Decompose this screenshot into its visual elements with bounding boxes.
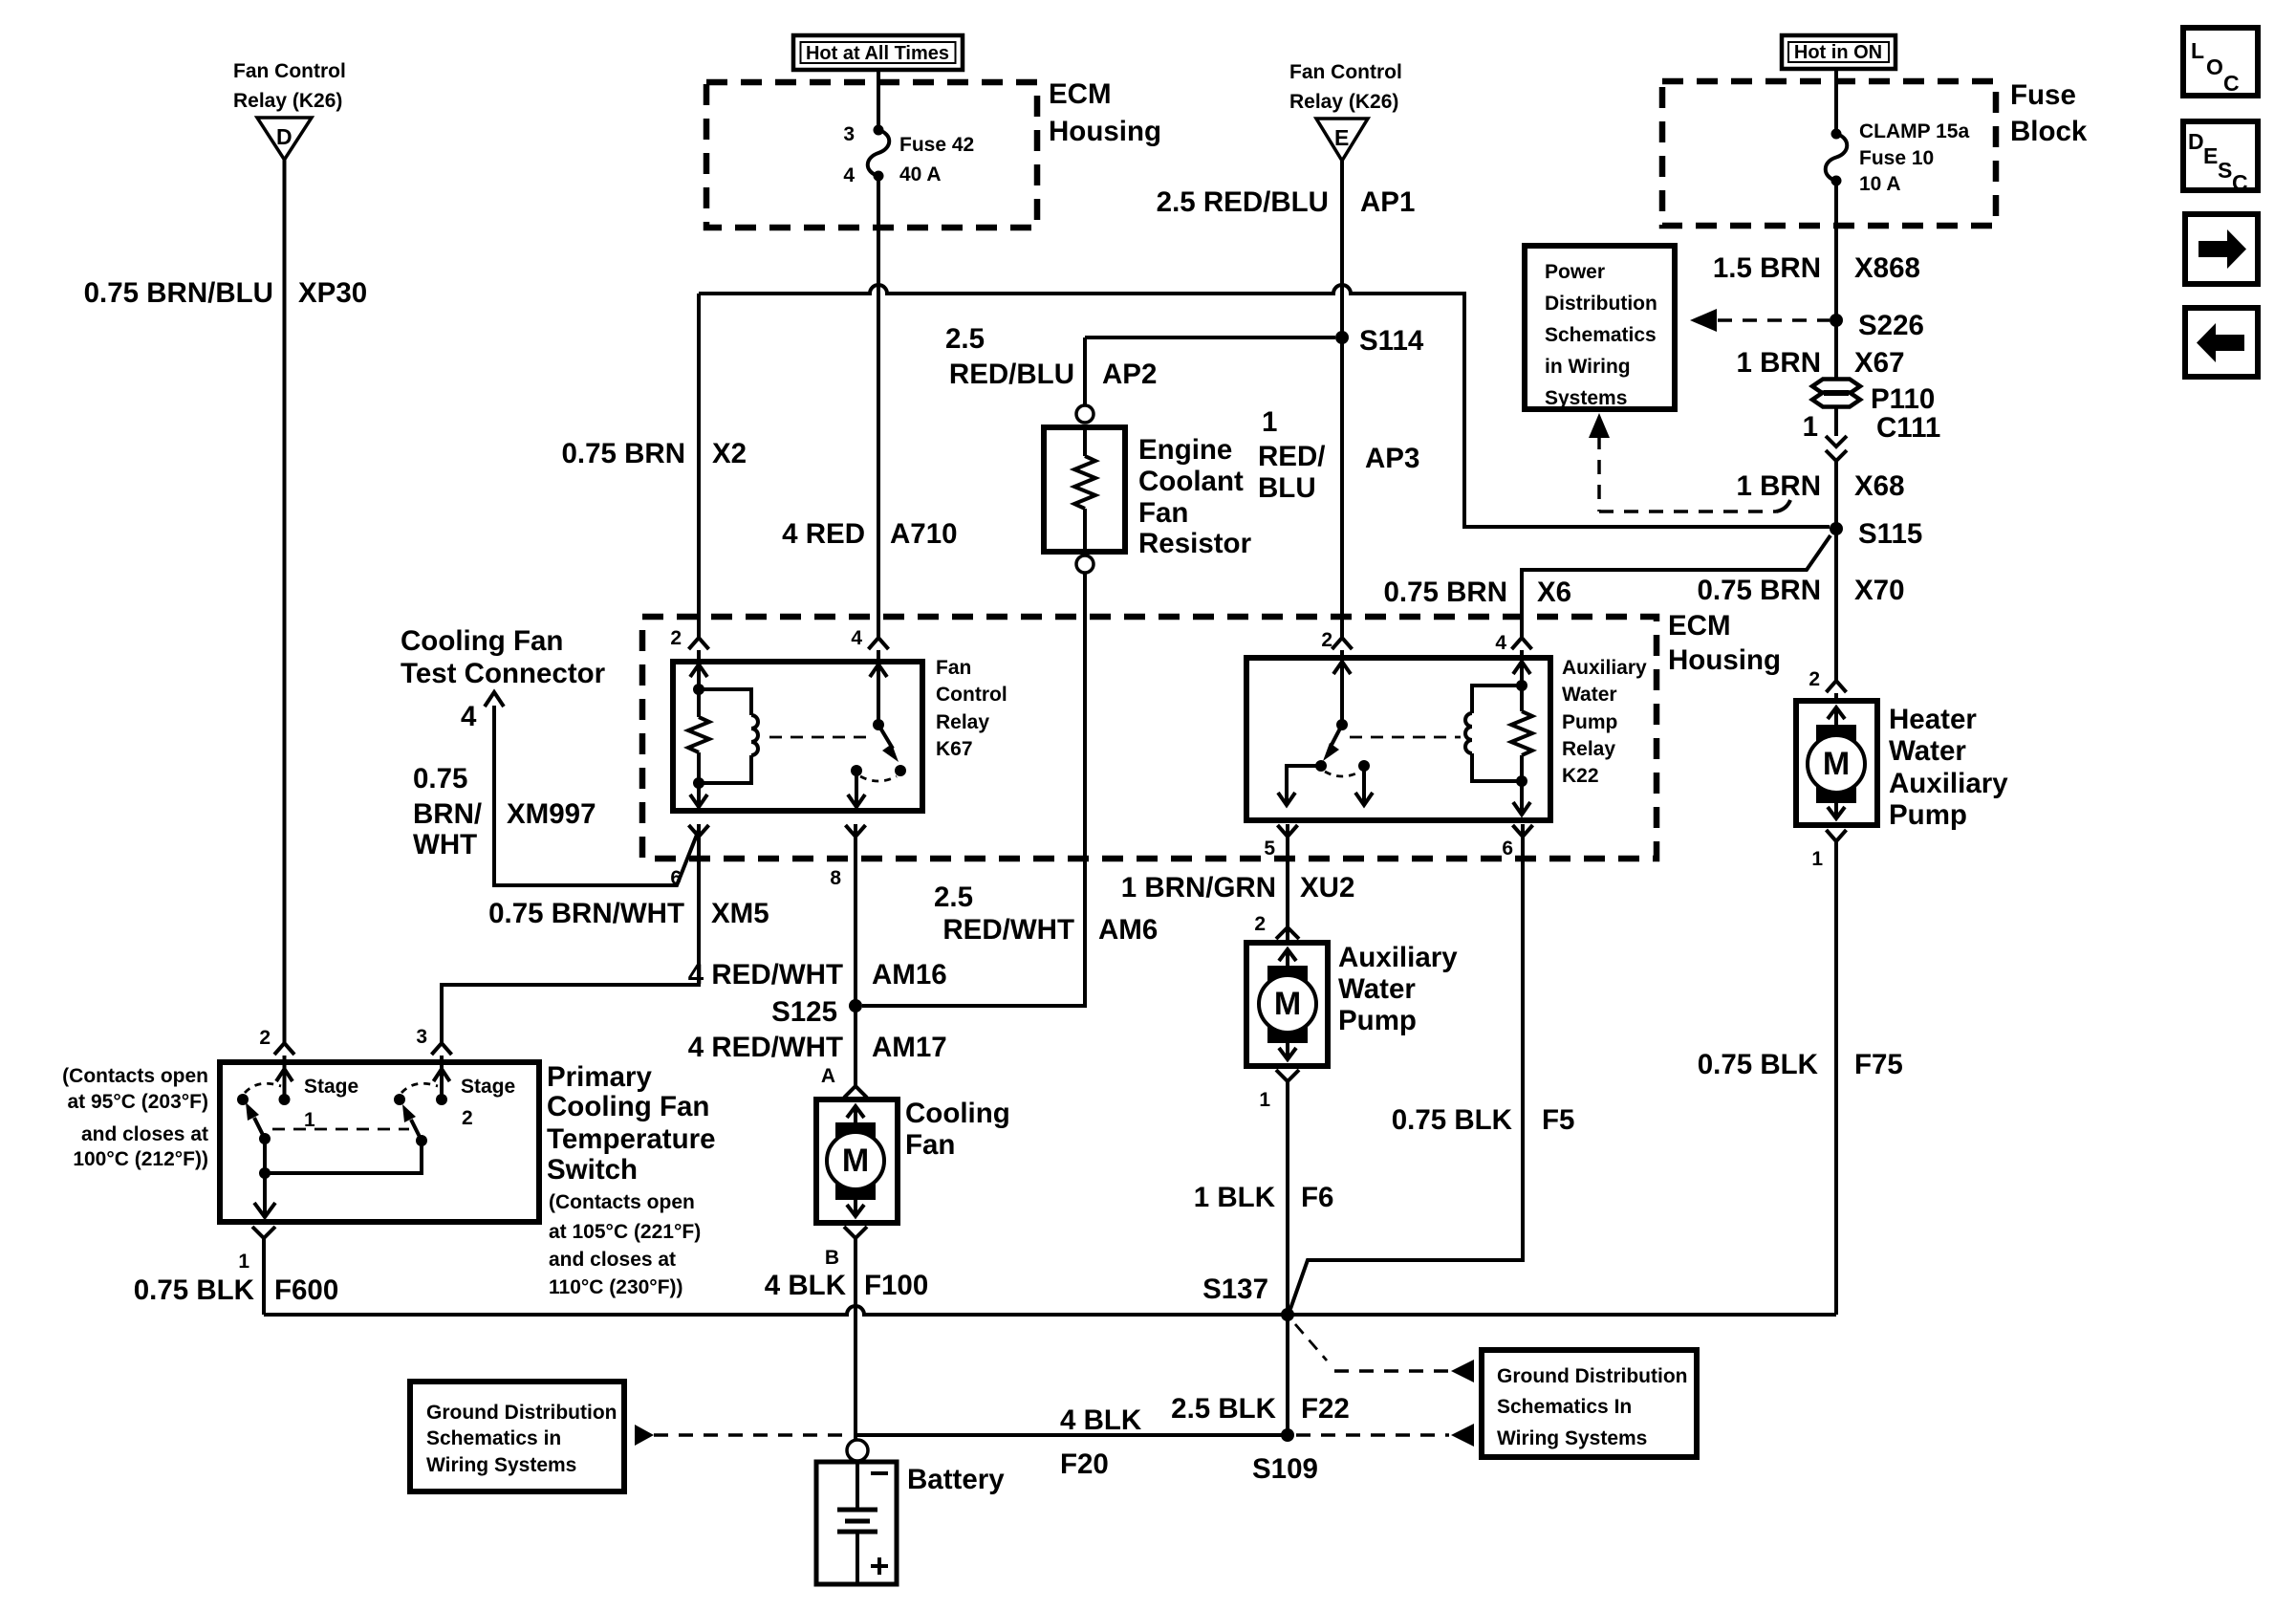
stage 2 fixed contact dot xyxy=(436,1094,447,1105)
svg-text:Engine: Engine xyxy=(1138,434,1232,466)
svg-text:X6: X6 xyxy=(1537,577,1571,608)
wire stub into switch box pin 3 xyxy=(440,1056,444,1065)
label: 4 RED | A710 xyxy=(782,518,957,550)
svg-text:Hot at All Times: Hot at All Times xyxy=(806,43,949,64)
wire XU2 (1 BRN/GRN) K22 pin 5 to aux pump xyxy=(1286,824,1289,927)
svg-text:Water: Water xyxy=(1562,684,1617,706)
dashed reference wire S137 to right ground box xyxy=(1295,1324,1449,1371)
svg-text:and closes at: and closes at xyxy=(81,1123,208,1145)
svg-text:1: 1 xyxy=(1259,1089,1270,1111)
chevron pin 4 relay K67 xyxy=(869,638,889,649)
label CLAMP 15a Fuse 10 10 A xyxy=(1859,120,1969,195)
resistor terminal circle bottom xyxy=(1076,555,1094,573)
K22 right contact internal lead with arrow xyxy=(1355,766,1373,805)
motor M2 Cooling Fan xyxy=(816,1099,898,1223)
svg-text:S109: S109 xyxy=(1252,1453,1318,1485)
svg-text:2: 2 xyxy=(462,1107,473,1129)
svg-text:Block: Block xyxy=(2010,116,2088,147)
wire stub pin 2 into aux pump xyxy=(1286,927,1289,943)
svg-text:K67: K67 xyxy=(936,738,973,760)
wire AM6 (2.5 RED/WHT) resistor down to S125 xyxy=(862,573,1085,1006)
resistor terminal circle top xyxy=(1076,405,1094,423)
stage 2 movable arm with arrowhead xyxy=(402,1104,422,1141)
chevron pin 5 relay K22 xyxy=(1278,825,1298,837)
svg-text:RED/BLU: RED/BLU xyxy=(949,359,1074,390)
label Cooling Fan xyxy=(905,1098,1010,1161)
svg-text:Schematics: Schematics xyxy=(1545,324,1657,346)
svg-text:L: L xyxy=(2191,38,2204,63)
chevron pin 2 temp switch xyxy=(274,1043,294,1055)
label: 2.5 RED/BLU | AP1 xyxy=(1157,186,1416,218)
junction node S125 xyxy=(849,999,862,1012)
label Fuse 42 / 40 A xyxy=(899,134,974,185)
svg-text:3: 3 xyxy=(416,1026,427,1048)
wire AP2 vertical (2.5 RED/BLU) xyxy=(1083,337,1087,405)
svg-text:F22: F22 xyxy=(1301,1393,1350,1425)
K22 pin 6 internal lead with arrow xyxy=(1513,781,1530,815)
svg-text:D: D xyxy=(2188,129,2204,154)
stage 2 fixed contact lead with arrow xyxy=(434,1065,450,1099)
svg-text:Auxiliary: Auxiliary xyxy=(1562,657,1647,679)
wire stub into switch box pin 2 xyxy=(283,1056,287,1065)
svg-text:4 BLK: 4 BLK xyxy=(765,1270,847,1301)
svg-text:Housing: Housing xyxy=(1668,644,1781,676)
K22 dashed mechanical link xyxy=(1350,736,1461,739)
svg-text:1 BRN/GRN: 1 BRN/GRN xyxy=(1121,872,1276,903)
svg-text:0.75: 0.75 xyxy=(413,763,467,795)
switch stage 1 fixed contact lead with arrow xyxy=(276,1065,292,1099)
svg-text:ECM: ECM xyxy=(1668,610,1731,642)
box: Power Distribution Schematics in Wiring Systems xyxy=(1525,246,1675,409)
wire F5 (0.75 BLK) K22 pin 6 down to S137 xyxy=(1290,824,1523,1309)
stage 1 dashed travel arc xyxy=(245,1083,281,1093)
svg-text:Cooling Fan: Cooling Fan xyxy=(547,1091,709,1122)
svg-text:6: 6 xyxy=(1502,838,1513,860)
dashed reference wire from Power Distribution box down and right toward X68 xyxy=(1589,413,1790,512)
svg-text:F100: F100 xyxy=(864,1270,928,1301)
relay K22 box (Auxiliary Water Pump Relay) xyxy=(1246,658,1550,820)
svg-text:F5: F5 xyxy=(1542,1104,1574,1136)
label: 0.75 BRN/ WHT | XM997 xyxy=(413,763,596,860)
svg-text:X67: X67 xyxy=(1854,347,1905,379)
K22 pin 4 internal lead with arrow xyxy=(1513,662,1530,686)
svg-text:1 BRN: 1 BRN xyxy=(1736,470,1821,502)
label: 0.75 BLK | F75 xyxy=(1698,1049,1903,1080)
svg-text:Switch: Switch xyxy=(547,1154,638,1186)
svg-text:XU2: XU2 xyxy=(1300,872,1354,903)
svg-text:and closes at: and closes at xyxy=(549,1249,676,1271)
svg-text:Control: Control xyxy=(936,684,1007,706)
K22 pin 5 internal lead with arrow xyxy=(1278,766,1321,805)
wire F6 (1 BLK) aux pump to S137 xyxy=(1286,1081,1289,1315)
box: Ground Distribution Schematics in Wiring Systems (left) xyxy=(410,1382,624,1491)
wire from Hot at All Times to fuse 42 xyxy=(877,70,880,130)
svg-text:Auxiliary: Auxiliary xyxy=(1338,942,1458,973)
label: 0.75 BRN/BLU | XP30 xyxy=(84,277,368,309)
K67 switch arm with arrowhead xyxy=(878,725,899,762)
svg-text:Wiring Systems: Wiring Systems xyxy=(1497,1427,1647,1449)
svg-text:0.75 BLK: 0.75 BLK xyxy=(1698,1049,1819,1080)
chevron pin 2 relay K67 xyxy=(689,638,709,649)
svg-text:C: C xyxy=(2232,170,2248,195)
label Auxiliary Water Pump xyxy=(1338,942,1458,1036)
in-line connector C111 (male arrow / female chevron) xyxy=(1826,436,1847,461)
svg-text:A710: A710 xyxy=(890,518,958,550)
svg-text:XP30: XP30 xyxy=(298,277,367,309)
label: 2.5 RED/BLU | AP2 xyxy=(945,323,1157,390)
svg-text:0.75 BRN/WHT: 0.75 BRN/WHT xyxy=(488,898,684,929)
switch output lead with arrow to pin 1 xyxy=(254,1173,275,1217)
svg-text:(Contacts open: (Contacts open xyxy=(62,1065,208,1087)
K22 resistor element xyxy=(1511,686,1532,781)
svg-text:0.75 BRN: 0.75 BRN xyxy=(1383,577,1507,608)
svg-text:S115: S115 xyxy=(1858,518,1922,550)
wire AM16/AM17 (4 RED/WHT) pin 8 down to cooling fan xyxy=(854,824,857,1086)
wire X2 vertical (0.75 BRN) xyxy=(697,294,701,639)
label Fuse Block xyxy=(2010,79,2088,147)
wire between P110 and C111 xyxy=(1834,407,1838,436)
wire F20 (4 BLK) battery to S109 xyxy=(857,1433,1288,1437)
K22 coil/resistor bottom node dot xyxy=(1516,775,1527,787)
svg-text:Fan: Fan xyxy=(1138,497,1188,529)
svg-text:4 BLK: 4 BLK xyxy=(1060,1404,1142,1436)
label: 1 | C111 xyxy=(1803,411,1941,444)
svg-text:F6: F6 xyxy=(1301,1182,1333,1213)
svg-text:ECM: ECM xyxy=(1049,78,1112,110)
svg-text:E: E xyxy=(2203,143,2218,168)
ground rail wire F600-S137-F75 with hop over F100 xyxy=(264,1306,1836,1315)
svg-text:Housing: Housing xyxy=(1049,116,1161,147)
svg-text:AM6: AM6 xyxy=(1098,914,1158,946)
K22 switch arm with arrowhead xyxy=(1323,725,1342,761)
label: 1.5 BRN | X868 xyxy=(1713,252,1920,284)
svg-text:Distribution: Distribution xyxy=(1545,293,1657,315)
K67 dashed mechanical link xyxy=(769,736,869,739)
label: 0.75 BLK | F600 xyxy=(134,1274,339,1306)
battery terminal circle xyxy=(847,1440,868,1461)
label: 4 RED/WHT | AM17 xyxy=(688,1032,947,1063)
label: 4 BLK | F100 xyxy=(765,1270,928,1301)
label: 0.75 BLK | F5 xyxy=(1392,1104,1575,1136)
svg-text:S: S xyxy=(2218,158,2232,183)
label ECM Housing (top) xyxy=(1049,78,1161,147)
svg-text:S125: S125 xyxy=(771,996,837,1028)
svg-text:AP2: AP2 xyxy=(1102,359,1157,390)
wire crossover horizontal (feed to X2 and S115) with hops xyxy=(699,285,1830,527)
svg-text:2: 2 xyxy=(1809,668,1820,690)
svg-text:4 RED/WHT: 4 RED/WHT xyxy=(688,1032,843,1063)
svg-text:B: B xyxy=(825,1247,839,1269)
arrowhead to Power Distribution box xyxy=(1690,309,1717,332)
svg-text:3: 3 xyxy=(843,123,855,145)
svg-text:Hot in ON: Hot in ON xyxy=(1794,42,1882,63)
svg-text:X68: X68 xyxy=(1854,470,1905,502)
svg-text:M: M xyxy=(1274,986,1301,1022)
wire stub pin 4 into K22 xyxy=(1520,650,1524,662)
K67 coil/resistor bottom node dot xyxy=(693,777,704,789)
label: 2.5 RED/WHT | AM6 xyxy=(934,882,1158,946)
chevron pin 3 temp switch xyxy=(432,1043,452,1055)
label Heater Water Auxiliary Pump xyxy=(1889,704,2008,831)
label: Fan Control Relay (K26) center xyxy=(1289,61,1402,113)
svg-text:Cooling Fan: Cooling Fan xyxy=(401,625,563,657)
svg-text:F20: F20 xyxy=(1060,1448,1109,1480)
pin labels 3 / 4 (fuse 42) xyxy=(843,123,855,186)
stage 2 open contact dot xyxy=(394,1094,405,1105)
svg-text:Pump: Pump xyxy=(1562,711,1617,733)
svg-text:Fuse 42: Fuse 42 xyxy=(899,134,974,156)
arrowhead at right ground box (upper) xyxy=(1451,1360,1474,1382)
junction node S137 xyxy=(1281,1308,1294,1321)
label: 1 RED/ BLU | AP3 xyxy=(1258,406,1419,504)
svg-text:2.5 RED/BLU: 2.5 RED/BLU xyxy=(1157,186,1329,218)
junction node S226 xyxy=(1830,314,1843,327)
svg-text:Relay: Relay xyxy=(1562,738,1615,760)
svg-text:2: 2 xyxy=(259,1027,271,1049)
K67 switch contact dot right xyxy=(895,765,906,776)
K22 pin 2 internal lead with arrow xyxy=(1333,662,1351,725)
wire X67 vertical (1 BRN) xyxy=(1834,320,1838,380)
svg-text:Coolant: Coolant xyxy=(1138,466,1244,497)
svg-text:Auxiliary: Auxiliary xyxy=(1889,768,2008,799)
label: 0.75 BRN | X2 xyxy=(561,438,747,469)
stage 1 pivot dot xyxy=(259,1133,271,1144)
svg-text:at 105°C (221°F): at 105°C (221°F) xyxy=(549,1221,701,1243)
K67 pin 6 internal lead with arrow xyxy=(690,783,707,807)
K67 pin 2 internal lead with arrow xyxy=(690,664,707,689)
wire F100 (4 BLK) cooling fan to battery xyxy=(854,1238,857,1440)
svg-text:C111: C111 xyxy=(1876,412,1940,444)
svg-text:at 95°C (203°F): at 95°C (203°F) xyxy=(67,1091,208,1113)
svg-text:Water: Water xyxy=(1338,973,1416,1005)
K22 switch pivot dot xyxy=(1336,719,1348,730)
K67 dashed travel arc xyxy=(860,776,897,781)
label: Fan Control Relay (K26) left xyxy=(233,60,346,112)
svg-text:Wiring Systems: Wiring Systems xyxy=(426,1454,576,1476)
svg-text:Fan Control: Fan Control xyxy=(233,60,346,82)
reference box left arrow xyxy=(2185,308,2258,377)
label: 2.5 BLK | F22 xyxy=(1171,1393,1350,1425)
svg-text:Test Connector: Test Connector xyxy=(401,658,606,689)
chevron pin 2 heater pump xyxy=(1827,681,1847,692)
label: 0.75 BRN | X70 xyxy=(1697,575,1904,606)
wire X6 (0.75 BRN) from S115 to K22 pin 4 xyxy=(1522,535,1830,639)
wire XP30 vertical (0.75 BRN/BLU) xyxy=(283,160,287,1044)
svg-text:0.75 BLK: 0.75 BLK xyxy=(134,1274,255,1306)
svg-text:Pump: Pump xyxy=(1889,799,1967,831)
K67 pin 4 internal lead with arrow xyxy=(870,664,887,725)
motor M3 Auxiliary Water Pump xyxy=(1246,943,1328,1066)
svg-text:Stage: Stage xyxy=(304,1076,358,1098)
svg-text:AP3: AP3 xyxy=(1365,443,1419,474)
chevron pin 1 aux water pump xyxy=(1276,1070,1299,1081)
wire AP1 vertical (2.5 RED/BLU) xyxy=(1340,161,1344,337)
label ECM Housing (relays) xyxy=(1668,610,1781,676)
svg-text:RED/WHT: RED/WHT xyxy=(942,914,1074,946)
chevron pin 1 temp switch xyxy=(252,1227,275,1238)
svg-text:AM17: AM17 xyxy=(872,1032,947,1063)
svg-text:1: 1 xyxy=(304,1109,315,1131)
svg-text:Heater: Heater xyxy=(1889,704,1977,735)
svg-text:1: 1 xyxy=(1262,406,1277,438)
wire stub pin 2 into heater pump xyxy=(1834,693,1838,701)
svg-text:2: 2 xyxy=(1254,913,1266,935)
svg-text:XM997: XM997 xyxy=(507,798,596,830)
arrowhead from left ground box xyxy=(635,1425,654,1446)
svg-text:Resistor: Resistor xyxy=(1138,528,1252,559)
reference box DESC xyxy=(2183,121,2258,195)
svg-text:E: E xyxy=(1334,125,1349,150)
svg-text:Systems: Systems xyxy=(1545,387,1627,409)
wire F75 (0.75 BLK) heater pump down to ground rail xyxy=(1834,840,1838,1315)
svg-text:Schematics In: Schematics In xyxy=(1497,1396,1632,1418)
label: 1 BRN | X67 xyxy=(1736,347,1904,379)
label Primary Cooling Fan Temperature Switch xyxy=(547,1061,716,1186)
svg-text:1 BRN: 1 BRN xyxy=(1736,347,1821,379)
svg-text:Relay (K26): Relay (K26) xyxy=(1289,91,1398,113)
junction node S109 xyxy=(1281,1428,1294,1442)
svg-text:0.75 BRN/BLU: 0.75 BRN/BLU xyxy=(84,277,273,309)
svg-text:X868: X868 xyxy=(1854,252,1920,284)
svg-text:Fan Control: Fan Control xyxy=(1289,61,1402,83)
svg-text:Power: Power xyxy=(1545,261,1605,283)
svg-text:CLAMP 15a: CLAMP 15a xyxy=(1859,120,1969,142)
wire stub pin 2 into K67 xyxy=(697,650,701,662)
stage 1 open contact dot xyxy=(237,1094,249,1105)
svg-text:0.75 BRN: 0.75 BRN xyxy=(1697,575,1821,606)
svg-text:1 BLK: 1 BLK xyxy=(1194,1182,1276,1213)
svg-text:S226: S226 xyxy=(1858,310,1924,341)
box: Hot in ON xyxy=(1782,35,1895,69)
arrowhead at right ground box (lower) xyxy=(1451,1424,1474,1447)
label: 0.75 BRN | X6 xyxy=(1383,577,1571,608)
fuse 10 S-curve element xyxy=(1826,134,1848,181)
svg-text:Fan: Fan xyxy=(905,1129,955,1161)
dashed box ECM Housing (relays K67 and K22) xyxy=(642,617,1657,859)
svg-text:X70: X70 xyxy=(1854,575,1905,606)
chevron pin 6 relay K22 xyxy=(1513,825,1533,837)
stage 2 dashed travel arc xyxy=(401,1083,438,1093)
chevron pin 1 heater pump xyxy=(1827,830,1847,841)
label: 1 BLK | F6 xyxy=(1194,1182,1334,1213)
wire XM5 (0.75 BRN/WHT) pin6 K67 to temp switch pin 3 xyxy=(442,824,699,1044)
svg-text:110°C (230°F)): 110°C (230°F)) xyxy=(549,1276,683,1298)
K67 pin 8 internal lead with arrow xyxy=(848,771,865,807)
box: Ground Distribution Schematics In Wiring Systems (right) xyxy=(1482,1350,1697,1457)
battery B1 xyxy=(816,1461,897,1584)
chevron pin B cooling fan xyxy=(844,1227,867,1238)
label contacts note left xyxy=(62,1065,208,1170)
wire stub pin 4 into K67 xyxy=(877,650,880,662)
chevron pin A cooling fan xyxy=(844,1086,867,1098)
svg-text:4 RED: 4 RED xyxy=(782,518,865,550)
svg-text:P110: P110 xyxy=(1871,383,1935,415)
label Stage 2 xyxy=(461,1076,515,1129)
svg-text:BRN/: BRN/ xyxy=(413,798,482,830)
label: 0.75 BRN/WHT | XM5 xyxy=(488,898,769,929)
svg-text:Fan: Fan xyxy=(936,657,971,679)
K67 switch contact dot left xyxy=(851,765,862,776)
fuse 42 S-curve element xyxy=(868,130,890,176)
svg-text:(Contacts open: (Contacts open xyxy=(549,1191,695,1213)
svg-text:Relay: Relay xyxy=(936,711,989,733)
svg-text:AP1: AP1 xyxy=(1360,186,1415,218)
dashed box Fuse Block xyxy=(1662,81,1996,226)
svg-text:2: 2 xyxy=(670,627,682,649)
svg-text:Cooling: Cooling xyxy=(905,1098,1010,1129)
label: 4 BLK / F20 xyxy=(1060,1404,1142,1480)
dashed box ECM Housing (top, fuse 42) xyxy=(706,82,1037,228)
switch dashed mechanical link xyxy=(272,1128,409,1131)
chevron pin 2 aux water pump xyxy=(1276,927,1299,939)
fuse F42 terminal dots xyxy=(874,125,884,136)
wire stub pin 2 into K22 xyxy=(1340,650,1344,662)
svg-text:4 RED/WHT: 4 RED/WHT xyxy=(688,959,843,991)
switch common link wire xyxy=(259,1139,422,1179)
label Auxiliary Water Pump Relay K22 xyxy=(1562,657,1647,787)
label Fan Control Relay K67 xyxy=(936,657,1007,760)
svg-text:Fuse 10: Fuse 10 xyxy=(1859,147,1934,169)
svg-text:10 A: 10 A xyxy=(1859,173,1901,195)
svg-text:40 A: 40 A xyxy=(899,163,942,185)
wire F600 (0.75 BLK) temp switch pin 1 to ground rail xyxy=(262,1238,266,1315)
relay K67 box (Fan Control Relay) xyxy=(673,662,922,811)
svg-text:Ground Distribution: Ground Distribution xyxy=(1497,1365,1687,1387)
svg-text:AM16: AM16 xyxy=(872,959,947,991)
box: Hot at All Times xyxy=(793,35,963,70)
svg-text:Battery: Battery xyxy=(907,1464,1005,1495)
svg-text:8: 8 xyxy=(830,867,841,889)
reference box right arrow xyxy=(2185,214,2258,284)
wire X68 vertical (1 BRN) xyxy=(1834,461,1838,529)
chevron pin 4 relay K22 xyxy=(1512,638,1532,649)
dashed reference wire left ground box to battery xyxy=(654,1433,847,1437)
svg-text:100°C (212°F)): 100°C (212°F)) xyxy=(73,1148,208,1170)
svg-text:Primary: Primary xyxy=(547,1061,652,1093)
svg-text:XM5: XM5 xyxy=(711,898,769,929)
svg-text:2.5: 2.5 xyxy=(945,323,985,355)
wire S114 horizontal to AP2 xyxy=(1085,336,1335,339)
junction node S114 xyxy=(1335,331,1349,344)
svg-text:WHT: WHT xyxy=(413,829,477,860)
label: 1 BRN | X68 xyxy=(1736,470,1904,502)
dashed reference wire S226 to Power Distribution box xyxy=(1718,318,1830,322)
svg-text:X2: X2 xyxy=(712,438,747,469)
K67 switch pivot dot xyxy=(873,719,884,730)
wire XM997 (0.75 BRN/WHT) test connector to pin 6 xyxy=(494,706,699,885)
svg-text:Temperature: Temperature xyxy=(547,1123,716,1155)
connector triangle E (Fan Control Relay K26) xyxy=(1316,119,1368,161)
junction node S115 xyxy=(1830,522,1843,535)
K67 coil element xyxy=(699,689,758,783)
K67 coil/resistor top node dot xyxy=(693,684,704,695)
stage 1 fixed contact dot xyxy=(279,1094,291,1105)
K22 dashed travel arc xyxy=(1325,772,1360,776)
svg-text:4: 4 xyxy=(461,701,477,732)
motor M1 Heater Water Auxiliary Pump xyxy=(1796,701,1877,825)
label: 4 RED/WHT | AM16 xyxy=(688,959,947,991)
wire X70 vertical (0.75 BRN) S115 to heater pump xyxy=(1834,529,1838,682)
chevron pin 6 relay K67 xyxy=(689,825,709,837)
svg-text:M: M xyxy=(1823,746,1850,782)
connector triangle D (Fan Control Relay K26) xyxy=(257,118,312,160)
svg-text:1: 1 xyxy=(238,1251,249,1273)
svg-text:Pump: Pump xyxy=(1338,1005,1417,1036)
K22 switch contact dot left xyxy=(1315,760,1327,772)
svg-text:S137: S137 xyxy=(1202,1274,1268,1305)
svg-text:Stage: Stage xyxy=(461,1076,515,1098)
wire A710 vertical (fuse 42 down to relay K67 pin 4) xyxy=(877,176,880,639)
